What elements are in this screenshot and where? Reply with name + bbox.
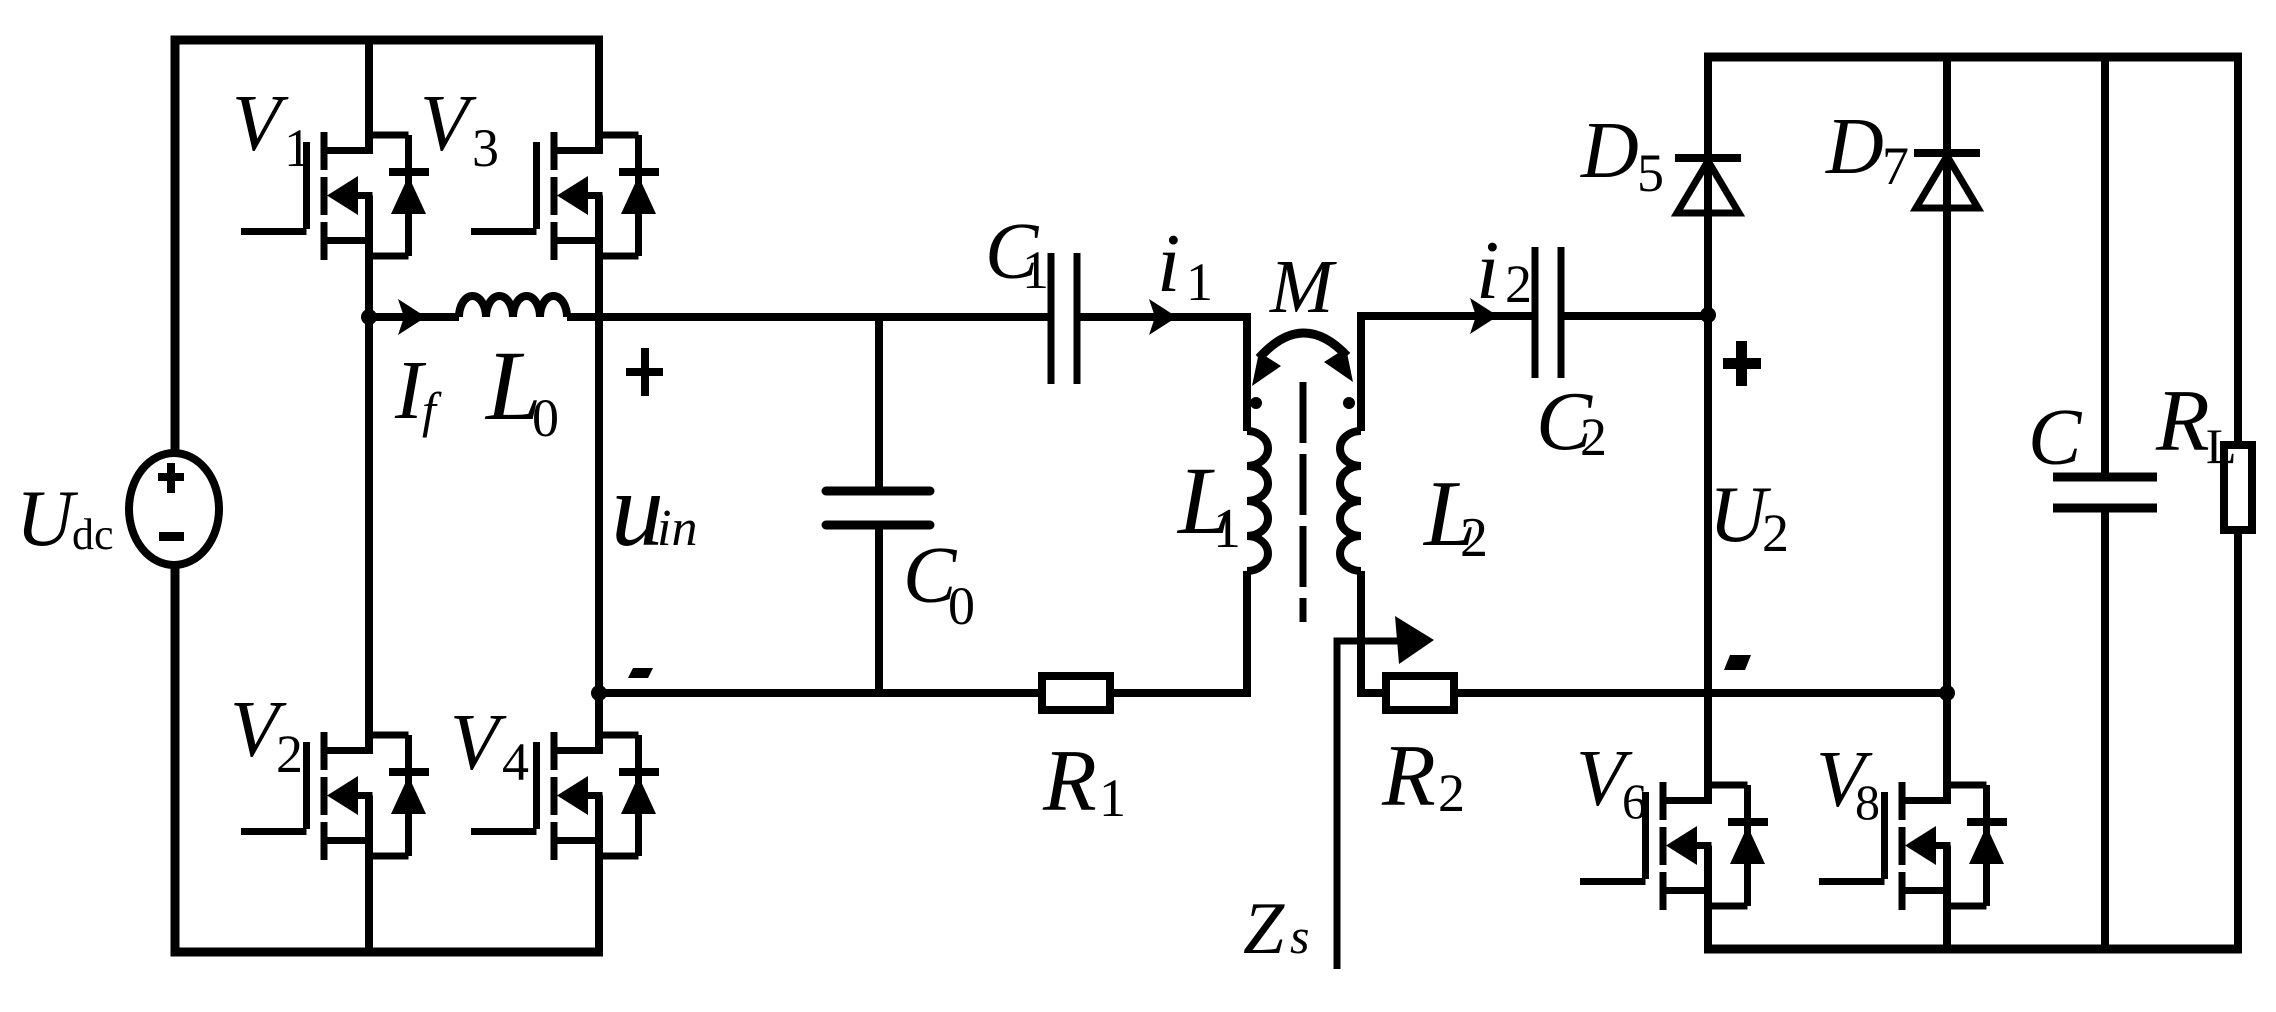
diode D5 (1675, 158, 1741, 213)
svg-text:R: R (2155, 373, 2210, 470)
transistor V1 (241, 132, 429, 260)
polarity dot secondary (1343, 397, 1355, 409)
source Udc circle (129, 453, 219, 565)
transformer core (1300, 382, 1307, 622)
svg-text:M: M (1269, 245, 1337, 329)
node A dot (bridge output) (361, 309, 377, 325)
impedance Zs pointer line (1337, 641, 1398, 969)
minus sign (U2) (1724, 655, 1751, 670)
node dot (rectifier left midpoint) (1700, 307, 1716, 323)
wire: C2 to rectifier (1561, 312, 1708, 320)
svg-text:1: 1 (1186, 252, 1213, 312)
wire: C1 to L1 top (1077, 317, 1247, 431)
arrow M left head (1252, 352, 1281, 386)
arrow Zs (1395, 616, 1434, 664)
wire: rectifier top rail (1704, 53, 2242, 62)
wire: rectifier right leg (1943, 57, 1951, 949)
transistor V2 (241, 732, 429, 860)
svg-text:1: 1 (284, 118, 311, 178)
wire: output bottom rail (1704, 945, 2242, 954)
inductor L2 winding (1340, 431, 1361, 571)
svg-text:2: 2 (1762, 503, 1789, 563)
polarity dot primary (1250, 397, 1262, 409)
wire: bridge output to L0 (369, 313, 459, 321)
svg-text:Z: Z (1243, 888, 1285, 970)
capacitor C leg top (2101, 57, 2109, 477)
svg-text:R: R (1042, 733, 1097, 830)
capacitor C0 plates (826, 491, 930, 525)
svg-text:V: V (420, 80, 477, 168)
capacitor C leg bottom (2101, 508, 2109, 949)
svg-text:0: 0 (948, 576, 975, 636)
svg-text:7: 7 (1882, 136, 1909, 196)
wire: L2 bottom (1361, 571, 1386, 693)
svg-text:2: 2 (1438, 763, 1465, 823)
plus sign (uin) (626, 368, 663, 376)
svg-text:2: 2 (1580, 407, 1607, 467)
svg-text:6: 6 (1622, 773, 1647, 829)
svg-text:5: 5 (1637, 143, 1664, 203)
capacitor C2 (1535, 247, 1561, 378)
minus sign (Udc) (159, 532, 184, 541)
mutual coupling arc M (1259, 333, 1347, 358)
capacitor C1 (1051, 253, 1077, 384)
transistor V6 (1580, 782, 1768, 910)
svg-text:2: 2 (276, 724, 303, 784)
inductor L0 (459, 296, 567, 317)
diode D7 (1914, 153, 1980, 208)
svg-text:i: i (1476, 224, 1499, 317)
svg-text:0: 0 (532, 388, 559, 448)
svg-text:1: 1 (1022, 240, 1049, 300)
svg-text:8: 8 (1855, 774, 1880, 830)
wire: bridge left leg (365, 40, 373, 952)
arrow i2 (1470, 298, 1498, 334)
node B dot (bridge right midpoint) (591, 685, 607, 701)
svg-text:C: C (2028, 394, 2083, 482)
wire: rectifier left leg (1704, 57, 1712, 949)
svg-text:1: 1 (1213, 498, 1241, 560)
capacitor C plates (2053, 477, 2157, 508)
svg-text:i: i (1157, 217, 1180, 310)
wire: L2 top (1361, 316, 1535, 431)
node dot (rectifier right midpoint) (1939, 685, 1955, 701)
wire: input loop top-left (175, 40, 603, 453)
arrow M right head (1324, 348, 1353, 382)
svg-text:V: V (232, 80, 289, 168)
svg-text:D: D (1825, 103, 1884, 191)
svg-text:4: 4 (502, 732, 529, 792)
minus sign (uin) (628, 668, 653, 678)
wire: R1 to L1 (1110, 571, 1247, 693)
svg-text:2: 2 (1505, 254, 1532, 314)
capacitor C0 leg bottom (875, 525, 883, 693)
wire: bridge minus to R1 (599, 689, 1042, 697)
resistor R1 (1042, 676, 1110, 710)
transistor V8 (1819, 782, 2007, 910)
arrow If (398, 299, 426, 335)
svg-text:3: 3 (472, 118, 499, 178)
transistor V3 (471, 132, 659, 260)
capacitor C0 leg top (875, 317, 883, 491)
arrow i1 (1149, 299, 1177, 335)
wire: bridge right leg (595, 40, 603, 952)
wire: R2 to rectifier right leg (1454, 689, 1947, 697)
svg-text:D: D (1580, 107, 1639, 195)
transistor V4 (471, 732, 659, 860)
svg-text:s: s (1290, 908, 1309, 964)
wire: L0 to C1 (567, 313, 1051, 321)
wire: input loop bottom-left (175, 566, 603, 952)
svg-text:R: R (1381, 728, 1436, 825)
resistor RL (2224, 445, 2252, 530)
wire: RL leg top (2234, 57, 2242, 445)
inductor L1 winding (1247, 431, 1268, 571)
plus sign (Udc) (158, 473, 184, 481)
svg-text:L: L (2206, 418, 2237, 474)
svg-text:2: 2 (1460, 507, 1488, 569)
svg-text:dc: dc (72, 510, 114, 559)
plus sign (U2) (1723, 358, 1761, 369)
svg-text:1: 1 (1099, 768, 1126, 828)
svg-text:U: U (16, 475, 79, 563)
svg-text:in: in (657, 500, 697, 557)
svg-text:V: V (450, 699, 507, 787)
wire: RL leg bottom (2234, 530, 2242, 949)
resistor R2 (1386, 676, 1454, 710)
